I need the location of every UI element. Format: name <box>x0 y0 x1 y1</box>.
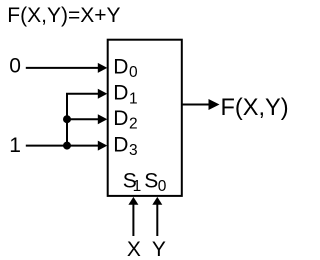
svg-text:3: 3 <box>129 142 138 159</box>
svg-text:S: S <box>144 169 158 192</box>
svg-text:1: 1 <box>133 178 142 195</box>
wire: branch corner to D1 <box>67 94 100 146</box>
svg-text:0: 0 <box>9 55 21 78</box>
wire: Y to S0 select <box>156 204 158 237</box>
junction dot on D2 branch <box>63 115 71 123</box>
arrowhead into D1 <box>98 89 108 99</box>
arrowhead of output <box>209 99 220 110</box>
wire: X to S1 select <box>132 204 134 237</box>
mux box U1 (4-to-1 multiplexer body) <box>108 40 182 196</box>
svg-text:0: 0 <box>158 178 167 195</box>
svg-text:2: 2 <box>129 116 138 133</box>
arrowhead into D2 <box>98 114 108 124</box>
svg-text:1: 1 <box>129 90 138 107</box>
wire: output from box <box>182 104 210 106</box>
arrowhead into D3 <box>98 141 108 151</box>
wire: 0 to D0 <box>26 67 100 69</box>
svg-text:Y: Y <box>152 238 166 260</box>
wire: 1 to D3 <box>26 145 100 147</box>
arrowhead into D0 <box>98 63 108 73</box>
arrowhead into S0 <box>152 197 162 205</box>
svg-text:D: D <box>113 134 128 157</box>
svg-text:X: X <box>127 238 141 260</box>
arrowhead into S1 <box>128 197 138 205</box>
svg-text:0: 0 <box>129 64 138 81</box>
svg-text:1: 1 <box>9 134 21 157</box>
svg-text:D: D <box>113 82 128 105</box>
svg-text:D: D <box>113 107 128 130</box>
svg-text:F(X,Y): F(X,Y) <box>221 95 289 121</box>
wire: branch to D2 <box>67 118 100 120</box>
svg-text:F(X,Y)=X+Y: F(X,Y)=X+Y <box>7 4 120 27</box>
junction dot on D3 wire <box>63 142 71 150</box>
svg-text:D: D <box>113 56 128 79</box>
